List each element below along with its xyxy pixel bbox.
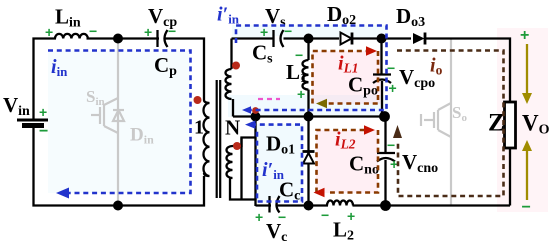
- svg-text:+: +: [255, 209, 263, 225]
- inductor L_2: [327, 201, 353, 209]
- tint region i_L1 loop: [312, 51, 381, 104]
- magnetizing current mark (magenta dashed): [258, 98, 280, 100]
- wire Z to bottom: [509, 148, 511, 206]
- svg-text:Z: Z: [488, 110, 505, 137]
- svg-text:+: +: [144, 24, 152, 40]
- svg-text:+: +: [297, 86, 305, 102]
- wire node D down: [384, 117, 386, 154]
- svg-text:−: −: [387, 60, 395, 76]
- transformer secondary lower winding: [227, 138, 256, 207]
- svg-text:N: N: [225, 116, 240, 140]
- svg-text:−: −: [321, 207, 329, 223]
- wire D_o2 to node C: [352, 37, 411, 39]
- diode D_o1: [303, 117, 315, 207]
- svg-text:+: +: [45, 24, 53, 40]
- inductor L_1: [303, 39, 309, 117]
- capacitor C_s: [275, 36, 280, 42]
- diode D_o2: [341, 33, 353, 45]
- polarity dot secondary lower: [233, 142, 241, 150]
- node B: [304, 112, 314, 122]
- polarity dot node N: [252, 107, 259, 114]
- current loop i_L1 (brown dashed): [313, 51, 379, 104]
- current loop i_L2 (brown dashed): [317, 130, 379, 193]
- node bottom-left: [113, 201, 123, 211]
- node F: [380, 200, 391, 211]
- wire secondary mid rail: [233, 115, 386, 117]
- svg-text:−: −: [168, 23, 176, 39]
- wire bottom secondary: [256, 204, 511, 206]
- tint region secondary band: [228, 95, 388, 117]
- svg-text:−: −: [89, 23, 97, 39]
- arrow i'_in upper: [242, 106, 251, 114]
- wire secondary top: [232, 37, 274, 39]
- transformer core: [217, 80, 221, 198]
- capacitor C_c: [270, 196, 280, 213]
- capacitor C_p: [159, 36, 164, 42]
- svg-text:+: +: [347, 208, 355, 224]
- arrow i_L2 bottom: [314, 188, 325, 197]
- switch S_in (inactive, gray): [91, 38, 124, 205]
- polarity dot primary: [194, 96, 202, 104]
- arrow i_in: [56, 188, 69, 199]
- arrow i'_in lower: [245, 120, 256, 128]
- wire node C down: [380, 39, 382, 75]
- svg-text:+: +: [520, 27, 529, 44]
- wire bottom primary: [34, 126, 205, 206]
- wire C_po to node D: [381, 81, 383, 117]
- output voltage annotation V_O: [520, 27, 550, 216]
- node D: [379, 111, 390, 122]
- transformer primary winding: [204, 100, 210, 176]
- diode D_o3: [413, 33, 425, 45]
- tint region output column: [497, 28, 548, 212]
- switch S_o (inactive, gray): [421, 38, 451, 206]
- tint region lower i'_in loop: [256, 124, 303, 202]
- arrow i_L1 top: [366, 46, 377, 55]
- current loop i_o (dark brown dashed): [397, 51, 504, 197]
- node E: [304, 201, 314, 211]
- current loop i'_in upper (blue dashed): [236, 26, 387, 111]
- node N center tap: [251, 112, 261, 122]
- tint region upper i'_in band: [232, 25, 388, 39]
- arrow i_L2 top: [364, 125, 375, 134]
- svg-text:+: +: [389, 80, 397, 96]
- polarity dot secondary upper: [232, 62, 240, 70]
- wire D_o3 to output: [424, 39, 510, 103]
- wire C_no to node F: [384, 160, 386, 206]
- node A: [304, 34, 314, 44]
- svg-text:−: −: [39, 123, 48, 140]
- tint region i_in loop interior: [48, 51, 190, 193]
- arrow i_o: [393, 125, 402, 138]
- wire C_s to node A: [284, 37, 309, 39]
- inductor L_in: [56, 37, 87, 42]
- wire center tap vertical: [254, 117, 256, 200]
- svg-text:−: −: [522, 199, 531, 216]
- svg-text:−: −: [387, 137, 395, 153]
- svg-text:1: 1: [194, 117, 204, 139]
- capacitor C_po: [373, 75, 391, 84]
- transformer secondary upper winding: [226, 39, 233, 117]
- svg-text:+: +: [39, 104, 47, 120]
- current loop i'_in lower (blue dashed): [251, 125, 302, 202]
- wire node A to D_o2: [309, 37, 340, 39]
- node C: [377, 34, 387, 44]
- arrow i_L1 bottom: [316, 99, 327, 108]
- wire top primary: [34, 39, 205, 121]
- load Z: [505, 102, 516, 148]
- current loop i_in (blue dashed): [48, 51, 191, 194]
- battery V_in: [17, 120, 48, 126]
- tint region i_L2 loop: [316, 130, 378, 193]
- svg-text:−: −: [295, 47, 303, 63]
- node top-left: [113, 34, 123, 44]
- capacitor C_no: [377, 153, 395, 162]
